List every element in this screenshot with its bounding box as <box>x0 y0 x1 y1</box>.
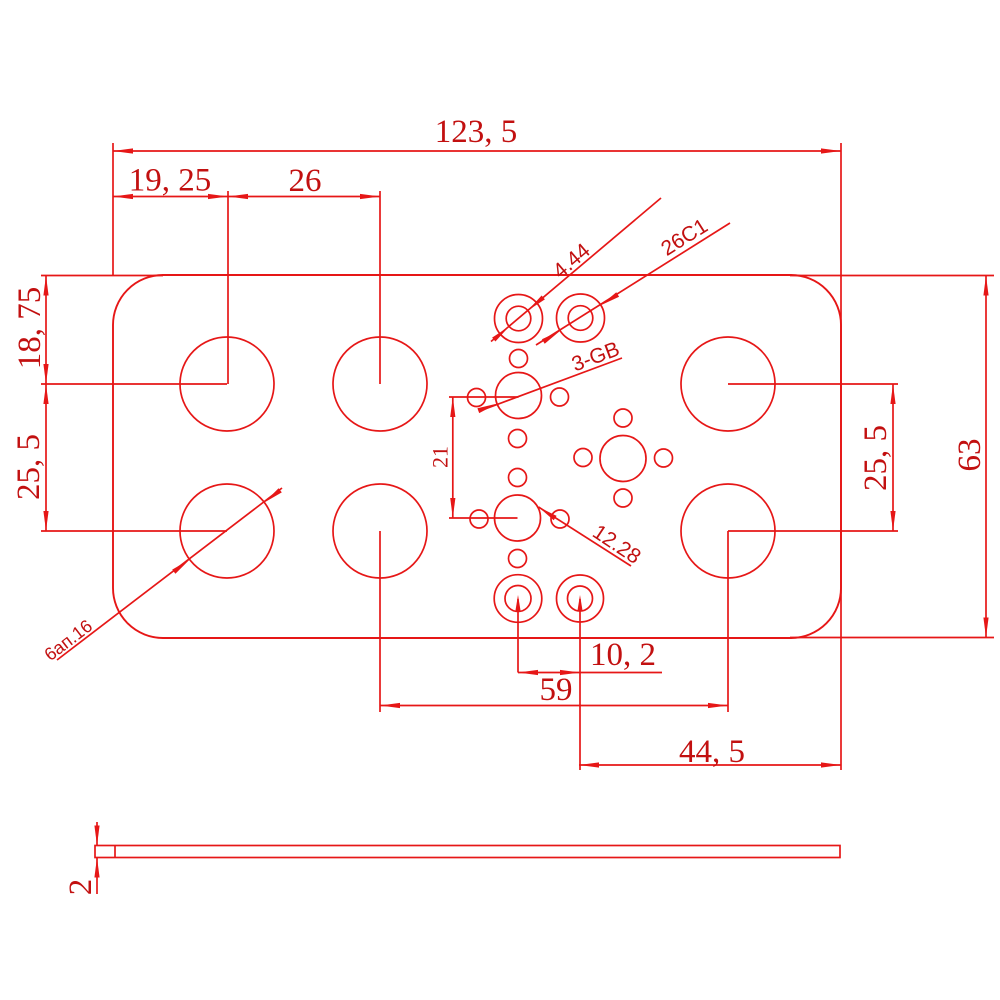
arrow 3-GB <box>477 404 497 414</box>
dimension line 63 <box>985 276 987 638</box>
extension line right vertical <box>840 143 842 770</box>
small hole 3 <box>551 388 569 406</box>
big hole top-middle <box>333 337 427 431</box>
extension line hole to dim 10.2 left <box>517 599 519 673</box>
extension line row2 left horizontal <box>41 530 227 532</box>
arrow 19.25 left <box>113 194 133 199</box>
side view left divider line <box>114 846 116 858</box>
arrow 4.44 lower <box>492 327 509 342</box>
arrow 18.75 top <box>43 276 48 296</box>
extension line row1 right horizontal <box>728 383 898 385</box>
big hole top-right <box>681 337 775 431</box>
medium hole B <box>495 495 541 541</box>
small hole 7 <box>551 510 569 528</box>
small hole 5 <box>509 469 527 487</box>
svg-text:63: 63 <box>952 439 988 472</box>
svg-text:19, 25: 19, 25 <box>129 163 212 199</box>
svg-text:123, 5: 123, 5 <box>435 114 518 150</box>
svg-text:44, 5: 44, 5 <box>679 734 745 770</box>
extension line left vertical <box>112 143 114 275</box>
cluster small left <box>574 449 592 467</box>
dimension line 10.2 <box>518 672 662 674</box>
svg-text:21: 21 <box>428 446 453 468</box>
ringed hole bottom-right outer <box>557 575 604 622</box>
arrow 25.5R top <box>890 384 895 404</box>
ringed hole top-left inner <box>506 306 531 331</box>
dimension line 19.25 and 26 <box>113 196 380 198</box>
arrow 25.5L top <box>43 384 48 404</box>
arrow 123.5 right <box>821 148 841 153</box>
big hole bottom-right <box>681 484 775 578</box>
svg-text:12.28: 12.28 <box>588 520 644 568</box>
arrow 18.75 bottom <box>43 364 48 384</box>
cluster small top <box>614 409 632 427</box>
svg-text:4.44: 4.44 <box>549 239 595 283</box>
extension line bottom-right horizontal <box>790 637 994 639</box>
arrow 44.5 right <box>821 762 841 767</box>
small hole 4 <box>509 430 527 448</box>
svg-text:59: 59 <box>540 672 573 708</box>
extension line dim21 top horizontal <box>449 396 519 398</box>
leader line 26C1 <box>536 223 730 345</box>
arrow 25.5L bottom <box>43 511 48 531</box>
arrow 21 top <box>450 397 455 417</box>
arrow 19.25 right <box>208 194 228 199</box>
arrow 63 bottom <box>983 618 988 638</box>
arrow 26C1 upper <box>601 292 619 305</box>
arrow 4.44 upper <box>528 296 545 311</box>
cluster small bottom <box>614 489 632 507</box>
arrow 63 top <box>983 276 988 296</box>
extension line row1 left horizontal <box>41 383 227 385</box>
svg-text:25, 5: 25, 5 <box>11 434 47 500</box>
leader line 6ap.16 <box>57 488 282 660</box>
dimension line 59 <box>380 705 728 707</box>
arrow 2 bottom <box>94 858 99 878</box>
big hole bottom-left <box>180 484 274 578</box>
dim 2 extension above <box>96 822 98 846</box>
arrow hole center right up <box>577 595 582 611</box>
leader line 4.44 <box>491 198 661 342</box>
arrow 44.5 left <box>579 762 599 767</box>
arrow 26C1 lower <box>542 331 560 344</box>
center hole <box>600 436 646 482</box>
dimension line 44.5 <box>579 764 841 766</box>
ringed hole bottom-left inner <box>505 586 531 612</box>
ringed hole bottom-left outer <box>494 575 542 623</box>
arrow 25.5R bottom <box>890 511 895 531</box>
dimension line 18.75 and 25.5 left <box>45 276 47 532</box>
small hole 8 <box>509 550 527 568</box>
dim 2 extension below <box>96 858 98 895</box>
ringed hole top-right inner <box>568 306 593 331</box>
arrow hole center left up <box>515 595 520 611</box>
arrow 2 top <box>94 826 99 846</box>
svg-text:3-GB: 3-GB <box>569 338 623 377</box>
side view plate bar <box>95 846 840 858</box>
svg-text:2: 2 <box>63 879 99 896</box>
arrow 6ap.16 lower <box>172 560 190 574</box>
arrow 26 left <box>228 194 248 199</box>
extension line top-right horizontal <box>790 275 994 277</box>
extension line col2 vertical lower <box>379 531 381 712</box>
small hole 2 <box>468 389 486 407</box>
arrow 123.5 left <box>113 148 133 153</box>
svg-text:25, 5: 25, 5 <box>858 425 894 491</box>
small hole 1 <box>510 350 528 368</box>
arrow 10.2 right <box>560 670 580 675</box>
cluster small right <box>655 449 673 467</box>
leader line 12.28 <box>539 507 632 566</box>
ringed hole top-right outer <box>557 294 605 342</box>
ringed hole top-left outer <box>495 295 543 343</box>
arrow 12.28 <box>539 507 557 520</box>
extension line row2 right horizontal <box>728 530 898 532</box>
arrow 21 bottom <box>450 498 455 518</box>
svg-text:26: 26 <box>289 163 322 199</box>
svg-text:26C1: 26C1 <box>657 214 712 260</box>
plate outline (top view) <box>113 275 841 638</box>
extension line col2 vertical upper <box>379 191 381 384</box>
arrow 26 right <box>360 194 380 199</box>
extension line right col vertical lower <box>727 531 729 712</box>
arrow 59 right <box>708 703 728 708</box>
extension line top-left horizontal <box>41 275 163 277</box>
arrow 6ap.16 upper <box>264 488 282 502</box>
dimension line 25.5 right <box>892 384 894 531</box>
svg-text:6ап.16: 6ап.16 <box>41 616 97 665</box>
arrow 10.2 left <box>518 670 538 675</box>
svg-text:18, 75: 18, 75 <box>12 287 48 370</box>
ringed hole bottom-right inner <box>568 586 593 611</box>
arrow 59 left <box>380 703 400 708</box>
extension line dim21 bottom horizontal <box>449 517 518 519</box>
dimension line 123.5 <box>113 150 841 152</box>
medium hole A <box>496 373 542 419</box>
leader line 3-GB <box>481 358 622 411</box>
big hole bottom-middle <box>333 484 427 578</box>
extension line hole to dim right <box>579 599 581 770</box>
small hole 6 <box>470 510 488 528</box>
big hole top-left <box>180 337 274 431</box>
svg-text:10, 2: 10, 2 <box>590 637 656 673</box>
dimension line 21 <box>452 397 454 518</box>
extension line col1 vertical <box>227 191 229 384</box>
